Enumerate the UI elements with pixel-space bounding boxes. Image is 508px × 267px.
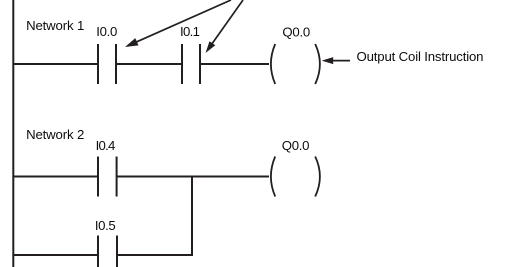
contact I0.1 [182,44,200,84]
annotation arrow to contact I0.0 [125,0,231,47]
svg-text:I0.4: I0.4 [96,138,116,153]
wire rung 3: I0.5 to branch [118,254,194,256]
wire rung 1: I0.1 to coil [200,63,269,65]
svg-text:Output Coil Instruction: Output Coil Instruction [357,49,484,64]
wire rung 3: rail to contact I0.5 [13,254,98,256]
wire rung 2: rail to contact I0.4 [13,176,98,178]
svg-text:Network 1: Network 1 [26,18,84,33]
coil Q0.0 rung 1 [271,44,320,84]
svg-text:I0.1: I0.1 [180,24,200,39]
contact I0.4 [98,157,117,197]
branch wire vertical [191,176,193,257]
contact I0.5 [98,236,117,267]
svg-text:I0.5: I0.5 [95,218,116,233]
wire rung 1: rail to contact I0.0 [13,63,98,65]
annotation arrow to coil [322,57,350,64]
wire rung 1: I0.0 to I0.1 [116,63,182,65]
coil Q0.0 rung 2 [271,157,320,197]
svg-text:I0.0: I0.0 [96,24,117,39]
svg-text:Q0.0: Q0.0 [282,24,310,39]
annotation arrow to contact I0.1 [206,0,244,53]
svg-text:Q0.0: Q0.0 [282,138,310,153]
contact I0.0 [98,44,116,84]
wire rung 2: I0.4 to coil [117,176,269,178]
svg-text:Network 2: Network 2 [26,127,84,142]
left power rail [12,0,14,267]
